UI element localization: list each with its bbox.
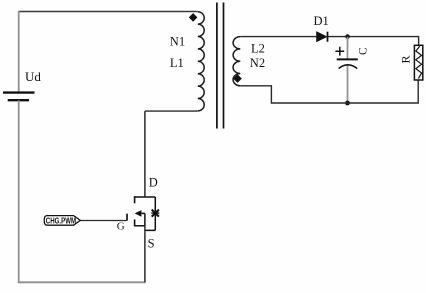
wire capacitor branch lower <box>347 66 349 104</box>
node capacitor bottom junction <box>345 101 350 106</box>
wire top rail primary <box>19 11 198 13</box>
wire gate <box>80 220 127 222</box>
svg-text:CHG.PWM: CHG.PWM <box>46 215 76 225</box>
battery Ud long plate <box>3 91 35 93</box>
transformer core <box>217 3 224 129</box>
wire capacitor branch upper <box>347 37 349 60</box>
wire primary bottom <box>145 110 198 112</box>
resistor R body <box>414 45 422 80</box>
svg-text:D1: D1 <box>314 14 329 28</box>
MOSFET Q1 arrow line <box>141 213 145 225</box>
svg-text:G: G <box>117 221 125 233</box>
MOSFET Q1 drain wire <box>144 111 146 197</box>
capacitor C curved plate <box>339 65 358 69</box>
svg-text:L1: L1 <box>170 56 184 70</box>
node capacitor top junction <box>345 34 350 39</box>
svg-text:L2: L2 <box>251 41 265 55</box>
MOSFET Q1 top stub <box>135 196 156 198</box>
MOSFET Q1 right branch <box>145 197 155 230</box>
MOSFET Q1 body arrow <box>135 210 142 217</box>
MOSFET Q1 body diode mark <box>152 210 159 217</box>
wire bottom rail primary <box>18 281 146 283</box>
block CHG.PWM <box>44 216 80 226</box>
MOSFET Q1 source wire <box>144 226 146 282</box>
resistor R zigzag <box>416 46 422 78</box>
wire diode to right corner <box>328 37 419 46</box>
svg-text:S: S <box>148 237 155 251</box>
polarity dot primary <box>189 13 198 22</box>
svg-text:Ud: Ud <box>25 69 41 84</box>
MOSFET Q1 bottom stub <box>135 225 145 227</box>
capacitor C plus sign <box>335 47 344 56</box>
svg-text:N2: N2 <box>250 56 265 70</box>
wire secondary top <box>240 36 316 38</box>
MOSFET Q1 bottom tick <box>134 219 136 226</box>
winding L1 primary coil <box>198 12 204 111</box>
MOSFET Q1 top tick <box>134 196 136 203</box>
svg-text:D: D <box>149 175 158 189</box>
wire secondary bottom rail <box>240 80 418 103</box>
svg-text:N1: N1 <box>170 35 185 49</box>
diode D1 <box>317 32 327 42</box>
capacitor C top plate <box>337 58 358 60</box>
MOSFET Q1 gate bar <box>126 214 128 221</box>
svg-text:R: R <box>399 55 413 63</box>
wire left rail lower <box>18 100 20 282</box>
wire left rail upper <box>18 11 20 92</box>
battery Ud short plate <box>8 99 29 101</box>
svg-text:C: C <box>358 47 370 55</box>
winding L2 secondary coil <box>233 37 240 86</box>
polarity dot secondary <box>233 74 242 83</box>
